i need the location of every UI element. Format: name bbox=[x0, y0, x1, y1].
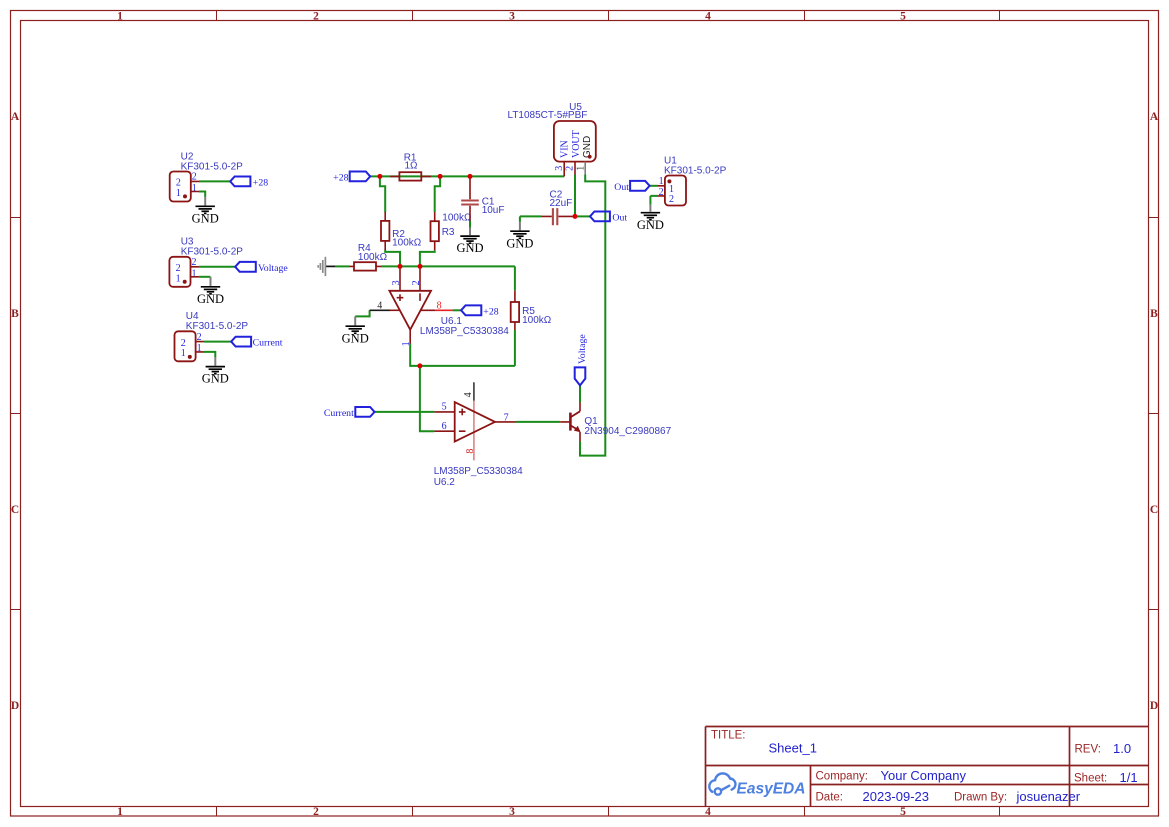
svg-text:+28: +28 bbox=[483, 306, 498, 317]
net flag +28 at U2 bbox=[230, 177, 268, 189]
svg-text:100kΩ: 100kΩ bbox=[392, 238, 422, 249]
wire opamp out feedback bbox=[410, 343, 515, 366]
svg-text:KF301-5.0-2P: KF301-5.0-2P bbox=[181, 247, 244, 258]
svg-text:1: 1 bbox=[401, 341, 412, 346]
net flag Voltage at U3 bbox=[235, 262, 288, 274]
svg-text:GND: GND bbox=[192, 211, 219, 225]
svg-text:4: 4 bbox=[705, 806, 711, 818]
junction +28 rail / R2 bbox=[377, 174, 382, 179]
svg-text:1: 1 bbox=[176, 273, 181, 284]
svg-text:4: 4 bbox=[705, 10, 711, 22]
svg-text:3: 3 bbox=[391, 280, 402, 285]
op-amp U6.1 LM358P bbox=[370, 266, 510, 346]
svg-text:C: C bbox=[11, 504, 19, 516]
wire rail to C1 bbox=[469, 176, 471, 178]
junction +28 rail / C1 bbox=[468, 174, 473, 179]
svg-text:3: 3 bbox=[554, 166, 565, 171]
svg-text:VOUT: VOUT bbox=[571, 130, 582, 158]
svg-text:C: C bbox=[1150, 504, 1158, 516]
ground at U1 bbox=[637, 205, 664, 232]
wire +28 rail bbox=[370, 175, 564, 177]
svg-text:GND: GND bbox=[637, 218, 664, 232]
svg-text:100kΩ: 100kΩ bbox=[522, 315, 552, 326]
svg-text:2N3904_C2980867: 2N3904_C2980867 bbox=[584, 426, 671, 437]
transistor Q1 2N3904 bbox=[560, 403, 671, 442]
svg-text:5: 5 bbox=[900, 806, 906, 818]
net flag Current at U4 bbox=[231, 337, 283, 349]
svg-text:1Ω: 1Ω bbox=[405, 161, 419, 172]
svg-text:Your Company: Your Company bbox=[881, 768, 967, 783]
wire Out flag to U1 pin1 bbox=[650, 185, 658, 187]
svg-text:1: 1 bbox=[192, 268, 197, 279]
wire pin7 to Q1 base bbox=[516, 421, 560, 423]
svg-text:B: B bbox=[11, 308, 19, 320]
svg-text:KF301-5.0-2P: KF301-5.0-2P bbox=[181, 161, 244, 172]
svg-text:3: 3 bbox=[509, 806, 515, 818]
svg-text:5: 5 bbox=[442, 402, 447, 413]
net flag Current into U6.2 bbox=[324, 407, 375, 419]
ground left of R4 (rotated) bbox=[318, 257, 335, 276]
svg-text:EasyEDA: EasyEDA bbox=[737, 781, 806, 798]
svg-text:A: A bbox=[1150, 111, 1159, 123]
svg-text:Voltage: Voltage bbox=[258, 263, 288, 274]
ruler row letters bbox=[11, 111, 1159, 712]
ground at U3 bbox=[197, 277, 224, 306]
net flag Voltage above Q1 bbox=[575, 334, 589, 386]
wire R2 to node opamp+ bbox=[385, 250, 400, 267]
net flag +28 at opamp pin8 bbox=[461, 305, 499, 317]
svg-text:GND: GND bbox=[456, 241, 483, 255]
svg-text:GND: GND bbox=[342, 331, 369, 345]
svg-text:8: 8 bbox=[465, 449, 476, 454]
wire U3 pin2 to Voltage flag bbox=[199, 266, 235, 268]
connector U3 KF301-5.0-2P bbox=[169, 237, 243, 287]
wire U1 pin2 to gnd bbox=[650, 196, 658, 205]
svg-text:Voltage: Voltage bbox=[577, 334, 588, 364]
resistor R3 bbox=[431, 212, 472, 250]
svg-text:GND: GND bbox=[197, 292, 224, 306]
svg-text:+28: +28 bbox=[253, 177, 268, 188]
op-amp U6.2 LM358P bbox=[434, 382, 523, 488]
wire C2 to Out flag bbox=[575, 215, 590, 217]
svg-text:D: D bbox=[1150, 700, 1158, 712]
ground at opamp U6.1 pin4 bbox=[342, 316, 369, 345]
svg-text:22uF: 22uF bbox=[550, 198, 573, 209]
svg-text:100kΩ: 100kΩ bbox=[442, 212, 472, 223]
svg-text:Sheet:: Sheet: bbox=[1074, 773, 1107, 785]
wire R4 to R5 node row bbox=[381, 265, 515, 267]
svg-text:5: 5 bbox=[900, 10, 906, 22]
capacitor C2 bbox=[542, 189, 576, 225]
junction +28 rail / R3 bbox=[438, 174, 443, 179]
wire U4 pin2 to Current flag bbox=[204, 341, 231, 343]
svg-text:VIN: VIN bbox=[560, 140, 571, 158]
svg-text:8: 8 bbox=[437, 301, 442, 312]
svg-text:LM358P_C5330384: LM358P_C5330384 bbox=[420, 326, 509, 337]
wire Q1 emitter to U5 gnd pin bbox=[580, 175, 605, 456]
ground at U4 bbox=[202, 357, 229, 386]
svg-text:6: 6 bbox=[442, 421, 447, 432]
resistor R1 bbox=[390, 153, 431, 181]
svg-text:1: 1 bbox=[176, 188, 181, 199]
svg-text:1: 1 bbox=[117, 806, 123, 818]
svg-text:1.0: 1.0 bbox=[1113, 741, 1131, 756]
svg-text:KF301-5.0-2P: KF301-5.0-2P bbox=[186, 321, 249, 332]
svg-text:TITLE:: TITLE: bbox=[711, 730, 746, 742]
wire U2 pin1 to gnd bbox=[199, 192, 205, 197]
svg-text:1: 1 bbox=[117, 10, 123, 22]
wire R5 bottom bbox=[514, 330, 516, 366]
svg-text:REV:: REV: bbox=[1075, 744, 1101, 756]
capacitor C1 bbox=[461, 178, 504, 221]
connector U2 KF301-5.0-2P bbox=[170, 151, 243, 201]
EasyEDA logo bbox=[709, 773, 805, 797]
svg-text:2: 2 bbox=[313, 806, 319, 818]
junction node opamp pin3 bbox=[398, 264, 403, 269]
svg-text:D: D bbox=[11, 700, 19, 712]
svg-text:1/1: 1/1 bbox=[1120, 770, 1138, 785]
svg-text:2: 2 bbox=[411, 280, 422, 285]
svg-text:josuenazer: josuenazer bbox=[1016, 789, 1081, 804]
connector U4 KF301-5.0-2P bbox=[175, 311, 249, 361]
ground at U2 bbox=[192, 197, 219, 226]
wire rail to R2 bbox=[380, 176, 385, 212]
svg-text:4: 4 bbox=[377, 300, 382, 311]
junction node opamp pin2 bbox=[418, 264, 423, 269]
net flag Out at C2 bbox=[590, 212, 627, 224]
svg-text:KF301-5.0-2P: KF301-5.0-2P bbox=[664, 165, 727, 176]
svg-text:4: 4 bbox=[463, 392, 474, 397]
svg-text:100kΩ: 100kΩ bbox=[358, 252, 388, 263]
wire U3 pin1 to gnd bbox=[199, 276, 211, 278]
svg-text:10uF: 10uF bbox=[482, 205, 505, 216]
wire gnd to C2 bbox=[520, 216, 542, 222]
svg-text:Company:: Company: bbox=[816, 771, 868, 783]
svg-text:1: 1 bbox=[192, 183, 197, 194]
svg-text:Out: Out bbox=[612, 212, 627, 223]
wire U2 pin2 to +28 flag bbox=[199, 180, 230, 182]
wire U4 pin1 to gnd bbox=[204, 352, 216, 357]
wire U5 vout down bbox=[574, 175, 576, 217]
regulator U5 LT1085CT-5#PBF bbox=[508, 102, 596, 176]
svg-text:+28: +28 bbox=[333, 172, 348, 183]
resistor R4 bbox=[349, 243, 387, 271]
svg-text:Current: Current bbox=[324, 408, 354, 419]
svg-text:2: 2 bbox=[565, 166, 576, 171]
svg-text:GND: GND bbox=[582, 136, 593, 158]
ground at C1 bbox=[456, 227, 483, 255]
wire C1 to gnd bbox=[469, 221, 471, 228]
svg-text:Sheet_1: Sheet_1 bbox=[769, 741, 817, 756]
svg-text:GND: GND bbox=[202, 372, 229, 386]
wire R3 to node opamp- bbox=[420, 250, 435, 266]
svg-text:LT1085CT-5#PBF: LT1085CT-5#PBF bbox=[508, 110, 588, 121]
wire feedback to pin6 bbox=[420, 366, 435, 431]
svg-text:3: 3 bbox=[509, 10, 515, 22]
ground at C2 bbox=[506, 222, 533, 250]
svg-text:2: 2 bbox=[669, 194, 674, 205]
title block grid bbox=[706, 727, 1149, 807]
svg-text:7: 7 bbox=[504, 412, 509, 423]
wire opamp1 pin8 to +28 flag bbox=[453, 309, 462, 311]
svg-text:2: 2 bbox=[313, 10, 319, 22]
junction feedback node bbox=[417, 363, 422, 368]
svg-text:Drawn By:: Drawn By: bbox=[954, 792, 1007, 804]
net flag +28 source bbox=[333, 172, 370, 184]
wire node to R5 top bbox=[514, 266, 516, 290]
svg-text:GND: GND bbox=[506, 236, 533, 250]
svg-text:2023-09-23: 2023-09-23 bbox=[863, 789, 930, 804]
resistor R5 bbox=[511, 291, 552, 330]
wire current flag to pin5 bbox=[375, 411, 435, 413]
svg-text:Date:: Date: bbox=[816, 792, 844, 804]
wire voltage flag to Q1 collector bbox=[579, 386, 581, 403]
wire opamp1 pin4 to gnd bbox=[355, 310, 369, 316]
svg-text:A: A bbox=[11, 111, 20, 123]
ruler column numbers bbox=[117, 10, 906, 818]
wire rail to R3 bbox=[435, 176, 440, 212]
svg-text:1: 1 bbox=[181, 348, 186, 359]
svg-text:Out: Out bbox=[614, 182, 629, 193]
connector U1 KF301-5.0-2P bbox=[658, 155, 727, 205]
title block texts bbox=[711, 730, 1138, 805]
svg-text:R3: R3 bbox=[442, 227, 455, 238]
svg-text:B: B bbox=[1150, 308, 1158, 320]
net flag Out to U1 bbox=[614, 181, 649, 193]
junction VOUT / C2 / Out bbox=[573, 214, 578, 219]
wire gnd to R4 bbox=[335, 265, 349, 267]
resistor R2 bbox=[381, 212, 422, 250]
svg-text:U6.2: U6.2 bbox=[434, 477, 456, 488]
svg-text:LM358P_C5330384: LM358P_C5330384 bbox=[434, 466, 523, 477]
svg-text:Current: Current bbox=[253, 338, 283, 349]
